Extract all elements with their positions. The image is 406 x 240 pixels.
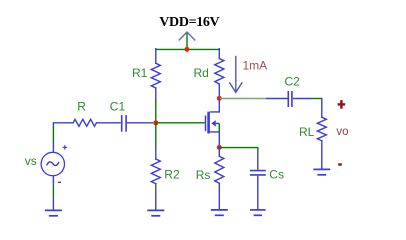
label plus output <box>338 100 346 109</box>
svg-text:R: R <box>77 100 86 114</box>
wire C2 to RL <box>293 98 312 100</box>
ground (vs) <box>45 210 62 215</box>
svg-text:Rd: Rd <box>194 66 209 80</box>
svg-text:1mA: 1mA <box>243 59 268 73</box>
svg-text:VDD=16V: VDD=16V <box>159 15 219 30</box>
source vs <box>41 123 67 183</box>
junction drain node <box>217 96 222 101</box>
resistor R2 <box>151 123 160 210</box>
svg-text:Rs: Rs <box>196 168 211 182</box>
ground (Cs) <box>250 210 266 215</box>
svg-text:C1: C1 <box>110 100 126 114</box>
resistor Rs <box>215 147 224 209</box>
svg-text:Cs: Cs <box>269 168 284 182</box>
resistor RL <box>317 99 326 170</box>
ground (RL) <box>313 169 330 174</box>
wire gate <box>156 122 205 124</box>
resistor R1 <box>151 49 160 123</box>
svg-text:RL: RL <box>299 125 315 139</box>
ground (Rs) <box>211 210 228 215</box>
wire C1 to gate node <box>127 122 153 124</box>
wire vs to ground <box>52 176 54 210</box>
junction source node <box>217 145 222 150</box>
svg-text:R2: R2 <box>164 167 180 181</box>
wire drain to C2 <box>219 98 266 100</box>
wire source to Cs <box>219 147 257 149</box>
wire VDD rail <box>156 48 220 50</box>
capacitor C2 <box>288 91 292 107</box>
capacitor C1 <box>122 115 126 132</box>
ground (R2) <box>147 210 164 215</box>
resistor Rd <box>215 49 224 99</box>
label minus output <box>338 163 342 165</box>
VDD power arrow <box>179 32 195 50</box>
transistor Q1 NMOS <box>206 98 220 147</box>
svg-text:R1: R1 <box>132 66 148 80</box>
junction gate node <box>153 120 158 125</box>
current arrow 1mA <box>229 56 242 93</box>
wire R to C1 <box>96 122 120 124</box>
svg-text:C2: C2 <box>285 75 301 89</box>
svg-text:vo: vo <box>336 126 348 138</box>
resistor R <box>53 119 96 126</box>
junction VDD rail <box>185 47 190 52</box>
capacitor Cs <box>250 147 266 210</box>
svg-text:vs: vs <box>25 154 37 168</box>
